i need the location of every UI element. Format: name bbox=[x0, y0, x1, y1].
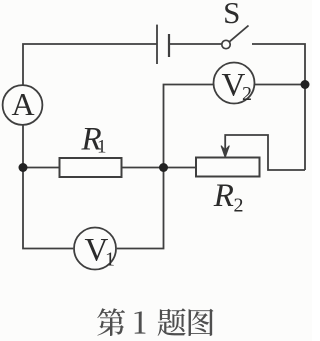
wire V2 left, down to middle junction bbox=[164, 85, 214, 168]
caption 第 1 题图 bbox=[97, 308, 213, 336]
caption char 1 bbox=[135, 311, 146, 333]
junction dot right bbox=[301, 80, 310, 89]
voltmeter V1 circle bbox=[74, 228, 116, 270]
caption char 第 bbox=[97, 308, 125, 336]
caption char 题 bbox=[158, 308, 186, 336]
wire V2 right to junction dot bbox=[255, 84, 305, 86]
wire left junction down to V1 bbox=[23, 168, 73, 249]
wire top-left from corner to battery bbox=[23, 44, 157, 85]
voltmeter V2 circle bbox=[214, 63, 255, 104]
svg-text:1: 1 bbox=[105, 249, 115, 271]
battery short plate (negative) bbox=[168, 34, 170, 57]
battery long plate (positive) bbox=[156, 25, 158, 64]
svg-text:2: 2 bbox=[242, 83, 252, 105]
wire A to left junction bbox=[22, 126, 24, 168]
wire R1 to middle junction bbox=[122, 167, 164, 169]
svg-text:S: S bbox=[223, 0, 240, 30]
wire V1 right up to middle junction bbox=[117, 168, 164, 249]
wire battery to switch bbox=[169, 43, 222, 45]
rheostat R2 box bbox=[196, 158, 260, 177]
switch S blade bbox=[230, 26, 249, 42]
wire middle junction to R2 bbox=[164, 167, 197, 169]
svg-text:A: A bbox=[11, 86, 34, 122]
junction dot left bbox=[19, 163, 28, 172]
ammeter A circle bbox=[3, 85, 43, 125]
caption char 图 bbox=[189, 309, 214, 336]
svg-text:2: 2 bbox=[234, 195, 244, 217]
switch S pivot circle bbox=[222, 40, 230, 48]
wire switch to top-right corner, down right side to wiper lead bbox=[252, 44, 305, 170]
junction dot middle bbox=[159, 163, 168, 172]
rheostat R2 wiper arrowhead bbox=[221, 146, 229, 157]
wire left junction to R1 bbox=[23, 167, 60, 169]
wire rheostat wiper lead bbox=[225, 135, 305, 170]
resistor R1 box bbox=[60, 158, 122, 177]
svg-text:1: 1 bbox=[97, 137, 107, 158]
svg-text:R: R bbox=[213, 178, 234, 214]
